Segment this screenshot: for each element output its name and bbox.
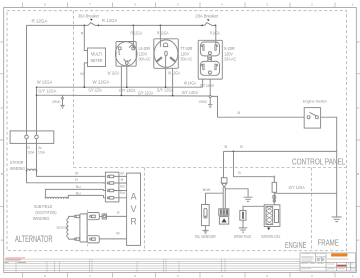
wire: meter W tap: [84, 63, 87, 87]
label STATOR WINDING: [10, 160, 25, 171]
svg-text:MULTI: MULTI: [91, 51, 102, 57]
svg-text:A: A: [357, 238, 359, 242]
svg-text:GRND: GRND: [199, 100, 207, 104]
receptacle J2 TT-30R: [154, 39, 179, 69]
wire: magneto branch to engine ground: [225, 189, 248, 197]
node: B junction: [233, 151, 235, 153]
svg-text:8: 8: [44, 3, 46, 7]
magneto trigger module: [219, 217, 228, 225]
svg-text:G/Y 12GA: G/Y 12GA: [38, 88, 56, 93]
junction dots stator: [26, 170, 38, 172]
wire: brush to connector: [99, 215, 102, 217]
wire: R 12GA drop to receptacle J2: [159, 25, 161, 47]
terminal ring W: [35, 135, 39, 139]
breaker CB1 30A: [78, 13, 99, 25]
logo banner (orange): [331, 253, 347, 256]
connector: stator terminal strip: [10, 131, 54, 144]
stator main winding L1: [27, 169, 37, 171]
svg-text:B: B: [240, 145, 243, 149]
ground: panel GRND electrode: [52, 95, 65, 108]
connector: kill lead housing: [272, 182, 277, 192]
svg-text:W 12GA: W 12GA: [93, 80, 110, 85]
wire: neutral tie down to stator terminal: [36, 87, 38, 131]
svg-text:30A AC: 30A AC: [139, 57, 151, 62]
svg-text:Bu: Bu: [120, 185, 125, 189]
svg-text:B/W: B/W: [203, 188, 211, 192]
svg-text:Bu: Bu: [76, 192, 81, 196]
svg-text:W 12GA: W 12GA: [168, 71, 180, 76]
wire: magneto twin lead: [223, 187, 225, 209]
svg-text:R 12GA: R 12GA: [157, 31, 169, 36]
svg-text:1: 1: [352, 3, 354, 7]
enclosure divider: control panel left edge: [73, 11, 75, 168]
ground: oil sensor ground electrode: [202, 230, 208, 233]
svg-text:R: R: [75, 178, 78, 182]
wire: coil feed to bullet: [273, 192, 275, 205]
wire: spark plug lead: [243, 206, 264, 210]
label 5-20R 120V 20A AC: [224, 46, 236, 62]
wire: W neutral bus: [37, 86, 203, 88]
svg-text:4: 4: [221, 3, 223, 7]
rotor axis centerline: [87, 210, 89, 247]
svg-text:120V: 120V: [224, 51, 233, 56]
label W 12GA (stator lead): [38, 146, 45, 155]
svg-text:B: B: [225, 145, 228, 149]
svg-text:20A Breaker: 20A Breaker: [195, 13, 218, 19]
wire: B kill wire to engine switch: [211, 96, 304, 117]
svg-text:R: R: [130, 217, 136, 227]
wire: R brush wire to AVR: [107, 215, 127, 217]
ground: ignition coil chassis arrow: [267, 227, 271, 231]
svg-text:7: 7: [89, 274, 91, 278]
revision strip rules: [4, 259, 300, 272]
wire: engine switch to frame ground: [321, 117, 337, 217]
receptacle J3 duplex 5-20R: [198, 40, 222, 79]
wire: R 12GA drop to receptacle J1: [132, 25, 134, 48]
wire: W sense to connector: [37, 171, 106, 176]
svg-text:WINDING: WINDING: [33, 216, 50, 221]
enclosure divider: engine / frame: [310, 168, 312, 251]
svg-text:R: R: [121, 178, 124, 182]
svg-text:30A Breaker: 30A Breaker: [78, 13, 99, 19]
svg-text:L5-30R: L5-30R: [139, 46, 151, 51]
brush holder top: [87, 213, 99, 220]
wire: J3 W drop: [202, 79, 204, 87]
svg-text:W 14GA: W 14GA: [184, 80, 196, 85]
svg-text:3: 3: [266, 274, 268, 278]
svg-text:R 12GA: R 12GA: [32, 18, 49, 23]
svg-text:12GA: 12GA: [27, 151, 34, 155]
wire: J1 W drop: [126, 64, 128, 87]
svg-text:G/Y 12GA: G/Y 12GA: [89, 88, 103, 93]
wire: coil feed down: [273, 178, 275, 183]
connector: brush square connector: [102, 214, 106, 219]
svg-text:GRND: GRND: [52, 100, 60, 104]
svg-text:FRAME: FRAME: [318, 237, 340, 247]
svg-text:8: 8: [44, 274, 46, 278]
svg-text:W 12GA: W 12GA: [108, 71, 120, 76]
junction dots on R bus: [83, 25, 216, 27]
svg-text:120V: 120V: [139, 51, 148, 56]
sub-field winding L2: [45, 189, 105, 198]
ground: frame ground electrode: [332, 217, 342, 222]
svg-text:METER: METER: [91, 58, 103, 64]
svg-text:R 12GA: R 12GA: [131, 31, 143, 36]
wire: J2 ground drop: [172, 68, 174, 95]
svg-text:B: B: [357, 172, 359, 176]
label TT-30R 120V 30A AC: [181, 46, 193, 62]
wire: R feed down to stator terminal: [26, 25, 28, 130]
brush holder bottom: [87, 236, 99, 243]
svg-text:W: W: [116, 232, 120, 236]
revision note (red): [5, 258, 25, 261]
wire: R through terminal to stator: [26, 131, 28, 171]
svg-text:OIL SENSOR: OIL SENSOR: [195, 234, 216, 239]
label L5-30R 120V 30A AC: [139, 46, 151, 62]
svg-text:B: B: [1, 172, 3, 176]
svg-text:120V: 120V: [181, 51, 190, 56]
wire: B drop to magneto connector: [223, 151, 225, 177]
svg-text:ENGINE: ENGINE: [285, 240, 307, 250]
node: ground junction under duplex: [199, 95, 213, 107]
svg-text:W: W: [80, 72, 84, 76]
multimeter M1: [88, 48, 106, 67]
wire: B branch to ignition coil: [234, 151, 274, 176]
wire: rotor bottom lead: [69, 238, 75, 239]
projection symbol: [317, 258, 325, 261]
svg-text:V: V: [131, 204, 137, 214]
svg-text:C: C: [1, 106, 4, 110]
svg-text:5: 5: [177, 274, 179, 278]
svg-text:R 14GA: R 14GA: [210, 31, 220, 36]
wire: R 14GA drop to duplex J3: [215, 25, 217, 45]
svg-text:SPARK PLUG: SPARK PLUG: [234, 234, 252, 239]
wire: oil sensor to ground: [205, 226, 207, 231]
receptacle J1 L5-30R: [115, 42, 137, 67]
svg-text:ROTOR: ROTOR: [57, 226, 69, 230]
svg-text:1: 1: [352, 274, 354, 278]
svg-text:SUB-FIELD: SUB-FIELD: [34, 204, 52, 209]
wire: meter R tap: [84, 25, 87, 50]
drawing number (red): [337, 265, 347, 267]
svg-text:Bu: Bu: [76, 185, 81, 189]
connector: mating arrow: [222, 183, 227, 187]
wire: W through terminal to stator: [36, 131, 38, 171]
svg-text:W: W: [75, 172, 79, 176]
svg-text:W: W: [38, 146, 42, 150]
splice mark at coil feed corner: [273, 176, 275, 178]
wire: J1 ground drop: [120, 66, 122, 95]
svg-text:R: R: [81, 32, 84, 36]
svg-text:STATOR: STATOR: [10, 160, 23, 165]
svg-text:2: 2: [311, 3, 313, 7]
ground: spark plug ground electrode: [239, 228, 248, 232]
connector: rotor bottom bullet: [74, 238, 79, 241]
svg-text:CONTROL PANEL: CONTROL PANEL: [292, 156, 346, 166]
svg-text:G/Y 12GA: G/Y 12GA: [119, 88, 136, 93]
wire: J3 ground drop: [209, 79, 211, 95]
ground: engine ground electrode: [244, 197, 253, 201]
wire: G/Y ground bus: [37, 94, 210, 97]
connector: rotor top bullet: [74, 215, 79, 218]
wire: J2 W drop: [165, 56, 167, 87]
svg-text:R 12GA: R 12GA: [102, 18, 118, 23]
enclosure divider: control panel bottom: [74, 167, 347, 169]
oil sensor S2: [202, 205, 210, 226]
connector: coil bullet pair: [273, 196, 276, 202]
svg-text:A: A: [1, 238, 3, 242]
svg-text:30A AC: 30A AC: [181, 57, 193, 62]
slip rings: [80, 214, 87, 242]
connector: magneto lead connector: [221, 178, 227, 183]
svg-text:TT-30R: TT-30R: [181, 46, 193, 51]
svg-text:A: A: [131, 192, 137, 202]
svg-text:7: 7: [89, 3, 91, 7]
junction dots on buses: [36, 86, 174, 96]
svg-text:Bu: Bu: [120, 191, 125, 195]
wire: B magneto bus: [224, 150, 337, 152]
wire: rotor top lead: [69, 216, 75, 218]
svg-text:G/Y 12GA: G/Y 12GA: [157, 88, 174, 93]
svg-text:ALTERNATOR: ALTERNATOR: [15, 234, 53, 245]
wire: G/Y 12GA coil ground to frame: [274, 192, 336, 194]
title box: [300, 253, 356, 271]
wire: spark plug to ground: [242, 220, 244, 227]
svg-text:B: B: [238, 111, 241, 115]
svg-text:5-20R: 5-20R: [224, 46, 235, 51]
svg-text:W 12GA: W 12GA: [37, 80, 52, 85]
terminal ring R: [25, 135, 29, 139]
svg-text:W: W: [120, 172, 124, 176]
rotor field winding L3: [67, 218, 69, 238]
wire: R sense to connector: [27, 171, 106, 183]
connector: alternator 4-pin block: [105, 172, 119, 202]
svg-text:WINDING: WINDING: [10, 166, 25, 171]
wires: connector to AVR: [114, 176, 127, 197]
svg-text:IGNITION COIL: IGNITION COIL: [261, 234, 281, 239]
label R 12GA (stator lead): [27, 146, 34, 155]
ignition coil T1: [264, 205, 280, 227]
svg-text:Engine Switch: Engine Switch: [303, 98, 327, 103]
regulator AVR: [127, 173, 141, 245]
svg-text:G/Y 12GA: G/Y 12GA: [138, 90, 153, 95]
svg-text:12GA: 12GA: [38, 151, 45, 155]
svg-text:G/Y 12GA: G/Y 12GA: [289, 185, 305, 190]
svg-text:5: 5: [177, 3, 179, 7]
wire: B/W branch to oil sensor: [206, 193, 224, 204]
svg-text:6: 6: [134, 3, 136, 7]
spark plug P1: [240, 211, 246, 221]
svg-text:(EXCITATION): (EXCITATION): [36, 210, 57, 215]
revision strip text marks: [5, 261, 27, 264]
label SUB-FIELD (EXCITATION) WINDING: [33, 204, 57, 221]
svg-text:D: D: [1, 40, 4, 44]
svg-text:3: 3: [266, 3, 268, 7]
svg-text:20A AC: 20A AC: [224, 57, 236, 62]
magneto exciter core: [219, 209, 229, 216]
tolerance note lines: [301, 253, 355, 269]
svg-text:4: 4: [221, 274, 223, 278]
wire: R hot bus: [27, 24, 216, 26]
svg-text:2: 2: [311, 274, 313, 278]
svg-text:B: B: [238, 171, 241, 175]
enclosure divider: alternator / engine: [143, 168, 145, 251]
svg-text:R: R: [117, 211, 120, 215]
wire: W brush wire to AVR: [99, 238, 126, 240]
svg-text:R: R: [27, 146, 30, 150]
switch S1 engine switch: [303, 98, 327, 128]
svg-text:6: 6: [134, 274, 136, 278]
breaker CB2 20A: [195, 13, 218, 25]
svg-text:G/Y 14GA: G/Y 14GA: [182, 90, 199, 95]
